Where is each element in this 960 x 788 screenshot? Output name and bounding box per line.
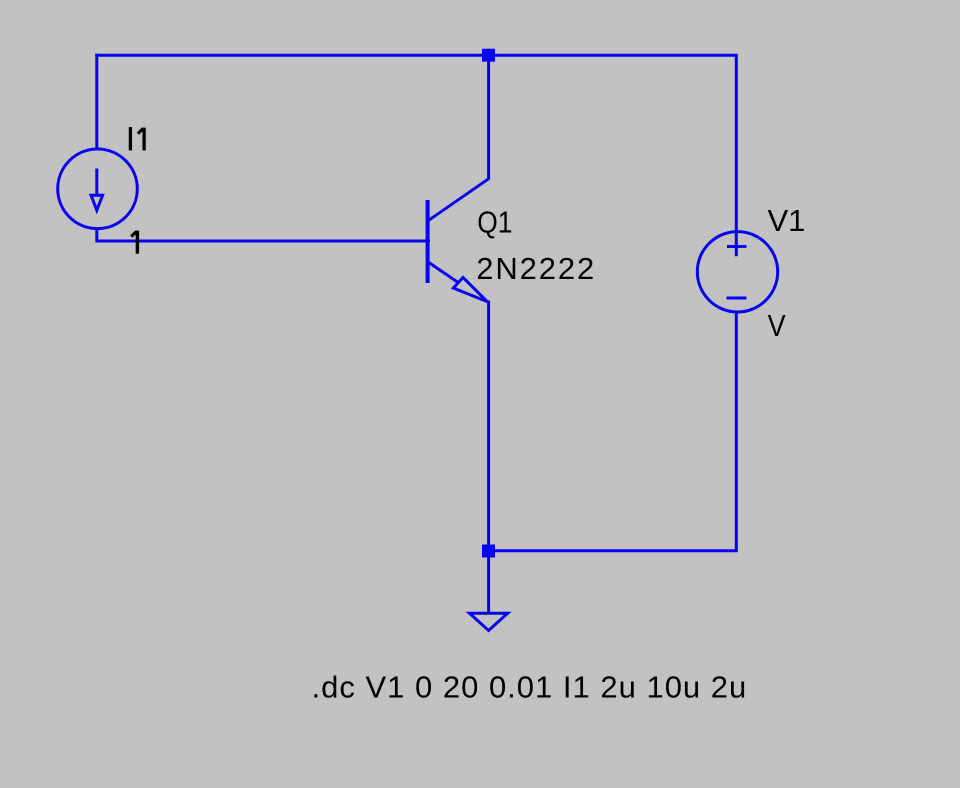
label I1 [130,127,144,150]
wire emitter vertical [487,301,490,552]
wire bottom rail [489,549,738,552]
node 1 label [131,231,137,254]
svg-text:V1: V1 [768,203,806,238]
node junction bottom [482,545,495,558]
wire current source bottom corner [97,230,430,242]
svg-text:V: V [768,309,787,343]
current source I1 [58,149,138,229]
wire left vertical to current source [95,54,98,149]
wire right vertical bottom [735,314,738,551]
svg-text:2N2222: 2N2222 [476,251,596,286]
wire right vertical top (through V1 plus) [735,55,738,256]
transistor Q1 [428,179,489,302]
ground [470,613,508,630]
value V [768,309,787,343]
node junction top [482,49,495,62]
wire collector vertical [487,55,490,179]
wire ground stem [487,551,490,613]
wire top rail [95,54,738,57]
svg-text:.dc V1 0 20 0.01 I1 2u 10u 2u: .dc V1 0 20 0.01 I1 2u 10u 2u [312,670,748,705]
voltage source V1 [697,232,777,312]
label Q1 [477,205,512,239]
svg-text:Q1: Q1 [477,205,512,239]
